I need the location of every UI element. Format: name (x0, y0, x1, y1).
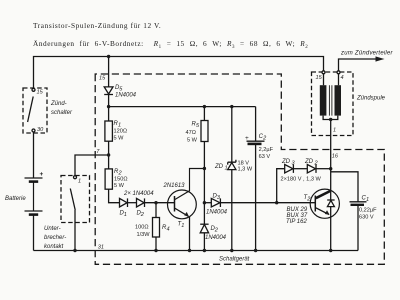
svg-text:5 W: 5 W (114, 183, 125, 189)
breaker box Unterbrecherkontakt (61, 176, 90, 223)
svg-text:4: 4 (167, 227, 170, 233)
svg-text:15: 15 (37, 90, 44, 96)
node R5 top (203, 105, 206, 108)
node R4 top (154, 201, 157, 204)
svg-text:ZD: ZD (304, 159, 314, 165)
svg-text:2: 2 (214, 228, 219, 234)
svg-text:Zündspule: Zündspule (356, 96, 386, 102)
svg-text:7: 7 (96, 149, 100, 155)
svg-text:120Ω: 120Ω (114, 129, 128, 135)
svg-text:+: + (40, 171, 44, 178)
svg-text:Zünd-: Zünd- (50, 101, 67, 107)
svg-text:1: 1 (225, 166, 228, 172)
wire top rail (34, 57, 324, 89)
node D3 junction (203, 201, 206, 204)
ignition coil box Zuendspule (312, 72, 354, 136)
svg-text:2: 2 (314, 161, 319, 167)
coil pin wires (324, 74, 339, 85)
node junction top rail to D5 column (107, 55, 110, 58)
wire R2 to diode row (109, 189, 120, 203)
diode D2 (137, 198, 145, 207)
wire D1 to D2 (128, 202, 137, 204)
svg-text:1: 1 (333, 128, 336, 134)
wire bottom rail (34, 250, 359, 252)
breaker blade (70, 189, 75, 211)
diode D4 vertical (200, 223, 208, 225)
wire T2 base (277, 202, 316, 204)
resistor R2 (105, 169, 112, 189)
svg-text:31: 31 (98, 245, 104, 251)
svg-text:1N4004: 1N4004 (205, 235, 227, 241)
svg-text:1/3W: 1/3W (137, 232, 151, 238)
node D5 junction (107, 105, 110, 108)
node T2 base junction (275, 201, 278, 204)
coil pin 4 (337, 71, 340, 74)
switch S1 pin 15 (32, 88, 35, 91)
diode inside T2 (327, 199, 334, 201)
wire breaker to rail (74, 210, 76, 251)
svg-text:2×180 V , 1,3 W: 2×180 V , 1,3 W (281, 177, 322, 183)
coil secondary winding (335, 85, 342, 115)
wire switch to battery (33, 132, 35, 178)
svg-text:5 W: 5 W (187, 138, 198, 144)
wire ZD chain riser (277, 169, 285, 203)
wire battery to ground rail (33, 215, 35, 251)
wire ZD2 to collector node (316, 168, 331, 170)
diode D3 (204, 202, 211, 204)
node T1 collector junction (203, 167, 206, 170)
svg-text:brecher-: brecher- (44, 235, 66, 241)
svg-text:47Ω: 47Ω (186, 130, 196, 136)
svg-text:ZD: ZD (281, 159, 291, 165)
svg-text:63 V: 63 V (259, 154, 271, 160)
wire to distributor (339, 59, 378, 71)
arrow head (376, 56, 385, 61)
svg-text:2N1613: 2N1613 (163, 183, 186, 189)
resistor R5 (203, 107, 205, 121)
svg-text:1: 1 (124, 212, 127, 218)
svg-text:2× 1N4004: 2× 1N4004 (123, 191, 154, 197)
wire R1 to node 7 (108, 141, 110, 169)
resistor R4 (155, 203, 157, 218)
svg-text:Batterie: Batterie (5, 196, 26, 202)
transistor T1 2N1613 (168, 190, 197, 219)
svg-text:zum Zündverteiler: zum Zündverteiler (340, 51, 394, 57)
svg-text:1: 1 (366, 197, 369, 203)
svg-text:Transistor-Spulen-Zündung für: Transistor-Spulen-Zündung für 12 V. (33, 21, 161, 30)
svg-text:Unter-: Unter- (44, 226, 61, 232)
node ZD1 top (230, 105, 233, 108)
Schaltgeraet dashed box (95, 74, 384, 264)
node breaker rail (73, 249, 76, 252)
wire horizontal bus y106 (109, 106, 256, 108)
diode D5 (104, 87, 113, 94)
svg-text:150Ω: 150Ω (114, 176, 128, 182)
zener ZD2 (307, 165, 315, 173)
node 7 junction (107, 153, 110, 156)
switch S1 blade (28, 97, 34, 123)
diode D1 (120, 198, 128, 207)
svg-text:+: + (245, 135, 249, 142)
switch S1 pin 30 (32, 129, 35, 132)
svg-text:2,2µF: 2,2µF (259, 147, 274, 153)
zener ZD1 (231, 107, 233, 163)
wire T2 emitter to rail (330, 207, 332, 251)
wire node7 to breaker (75, 155, 109, 175)
zener ZD3 (285, 165, 293, 173)
transistor T2 (310, 189, 339, 218)
coil core lines (329, 85, 332, 115)
resistor R1 (105, 121, 113, 141)
svg-text:4: 4 (341, 75, 344, 81)
svg-text:schalter: schalter (51, 110, 73, 116)
coil bottom connection (323, 116, 338, 120)
svg-text:2: 2 (140, 212, 145, 218)
svg-text:1N4004: 1N4004 (206, 210, 228, 216)
svg-text:1: 1 (78, 179, 81, 185)
battery B1 (25, 178, 43, 215)
svg-text:1N4004: 1N4004 (115, 93, 137, 99)
svg-text:Schaltgerät: Schaltgerät (219, 257, 250, 263)
coil primary winding (320, 85, 327, 115)
svg-text:100Ω: 100Ω (135, 225, 149, 231)
wire ZD3 to ZD2 (293, 168, 307, 170)
svg-text:TIP 162: TIP 162 (286, 219, 307, 225)
svg-text:Änderungen für 6-V-Bordnetz:: Änderungen für 6-V-Bordnetz: R1 = 15 Ω, … (33, 39, 308, 50)
svg-text:5 W: 5 W (114, 135, 125, 141)
node T2 collector (329, 167, 332, 170)
svg-text:30: 30 (37, 127, 44, 133)
svg-text:5: 5 (196, 123, 200, 129)
switch S1 Zuendschalter box (23, 88, 47, 133)
svg-text:0,22µF: 0,22µF (359, 208, 377, 214)
coil pin 15 (322, 71, 325, 74)
svg-text:3: 3 (292, 161, 296, 167)
svg-text:15: 15 (99, 76, 106, 82)
svg-text:630 V: 630 V (359, 215, 374, 221)
svg-text:15: 15 (316, 75, 323, 81)
svg-text:2: 2 (262, 135, 267, 141)
svg-text:ZD: ZD (214, 164, 224, 170)
svg-text:1: 1 (181, 223, 184, 229)
wire D2 to T1 base (145, 202, 175, 204)
svg-text:kontakt: kontakt (44, 244, 64, 250)
wire C1 branch (331, 172, 358, 202)
wire D5 to R1 (108, 95, 110, 122)
capacitor C2 (255, 107, 257, 141)
capacitor C1 (350, 201, 367, 203)
breaker pin 1 (74, 176, 77, 179)
svg-text:5: 5 (119, 86, 123, 92)
svg-text:16: 16 (332, 154, 339, 160)
wire coil to T2 collector (330, 120, 332, 201)
node T1 emitter rail (188, 249, 191, 252)
svg-text:1,3 W: 1,3 W (238, 166, 253, 172)
svg-text:1: 1 (118, 122, 121, 128)
wire rail to D5 (108, 57, 110, 87)
